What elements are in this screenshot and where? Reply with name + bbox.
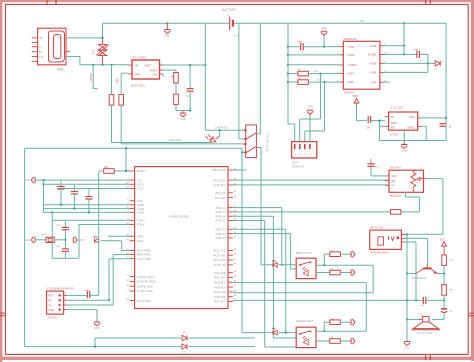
svg-text:MCP73831: MCP73831 [131, 84, 145, 88]
svg-text:SDA: SDA [317, 79, 322, 82]
svg-text:MMBT2222A: MMBT2222A [412, 276, 427, 280]
svg-text:JST-1M: JST-1M [48, 316, 57, 320]
svg-text:GND2: GND2 [137, 203, 145, 207]
svg-text:RED-PONG: RED-PONG [296, 251, 313, 255]
svg-text:BMA250: BMA250 [344, 91, 355, 95]
svg-text:ADC6 (PE2): ADC6 (PE2) [137, 299, 151, 303]
svg-text:TSCK (PB5): TSCK (PB5) [137, 257, 151, 261]
svg-text:(PA1) AD1: (PA1) AD1 [214, 276, 227, 280]
svg-text:GND: GND [404, 346, 410, 350]
svg-text:PS 217-8040: PS 217-8040 [417, 331, 433, 335]
svg-text:STAT: STAT [116, 78, 119, 84]
svg-text:USB.5V: USB.5V [90, 73, 93, 82]
svg-text:RST: RST [48, 294, 54, 298]
svg-text:CS: CS [392, 186, 396, 188]
svg-text:VCC2: VCC2 [137, 187, 144, 191]
svg-text:7.2Ω: 7.2Ω [417, 312, 423, 316]
svg-text:XTAL: XTAL [40, 234, 47, 237]
svg-text:MMA8452Q: MMA8452Q [343, 37, 357, 41]
svg-text:(PB2) 42: (PB2) 42 [216, 232, 227, 236]
svg-text:USB LED: USB LED [168, 138, 182, 142]
svg-text:8-VSS: 8-VSS [370, 73, 377, 75]
svg-text:+: + [227, 13, 229, 17]
svg-text:(PC5) TDI: (PC5) TDI [214, 263, 226, 267]
svg-text:XTAL2: XTAL2 [137, 219, 145, 223]
svg-text:DIGI-POT: DIGI-POT [390, 166, 402, 170]
svg-text:VB: VB [39, 38, 43, 40]
svg-text:4-SCK: 4-SCK [347, 74, 354, 76]
svg-text:AREF: AREF [137, 234, 144, 238]
svg-text:Vbat: Vbat [298, 41, 303, 44]
svg-text:FTDI SERIAL/PWR HD: FTDI SERIAL/PWR HD [47, 286, 74, 290]
svg-text:LP5912: LP5912 [390, 132, 400, 136]
svg-text:GND: GND [94, 326, 100, 330]
svg-text:(PA0) AD0: (PA0) AD0 [214, 271, 227, 275]
svg-text:D-: D- [39, 47, 42, 49]
svg-text:3.3v LDO: 3.3v LDO [391, 106, 404, 110]
svg-text:VDD: VDD [392, 176, 397, 178]
svg-text:(PA7) AD7: (PA7) AD7 [214, 300, 227, 304]
svg-text:(PA4) AD4: (PA4) AD4 [214, 290, 227, 294]
svg-text:(PD4) 12: (PD4) 12 [215, 206, 226, 210]
svg-text:1-VDDIO: 1-VDDIO [347, 65, 357, 67]
svg-text:10-VDD: 10-VDD [368, 55, 377, 57]
svg-text:DISPLAY: DISPLAY [292, 165, 304, 169]
svg-text:VIN: VIN [134, 63, 138, 67]
svg-text:EN: EN [391, 126, 395, 130]
svg-text:SCL: SCL [314, 71, 319, 73]
svg-text:(PC5) SCL: (PC5) SCL [213, 183, 226, 187]
svg-text:7-INT: 7-INT [370, 82, 376, 84]
svg-text:PROG: PROG [150, 68, 158, 72]
svg-text:GND: GND [391, 121, 397, 125]
svg-text:(PD5) 13: (PD5) 13 [215, 210, 226, 214]
svg-text:(PC4) SDA: (PC4) SDA [213, 178, 226, 182]
svg-text:5.1v: 5.1v [92, 49, 95, 54]
svg-text:MCP4021: MCP4021 [390, 194, 402, 198]
svg-text:(PC4) TDO: (PC4) TDO [213, 258, 226, 262]
svg-text:BATTERY: BATTERY [222, 8, 237, 12]
svg-text:VSS: VSS [152, 73, 157, 77]
svg-text:MISO (PB4): MISO (PB4) [137, 253, 151, 257]
svg-text:GND: GND [180, 117, 186, 121]
svg-text:GND: GND [25, 239, 31, 242]
svg-text:VCC: VCC [137, 178, 143, 182]
svg-text:(PD7) 15: (PD7) 15 [215, 219, 226, 223]
svg-text:AVCC: AVCC [137, 239, 144, 243]
svg-text:2v8: 2v8 [360, 19, 365, 23]
svg-text:USB: USB [57, 68, 64, 72]
svg-text:(PB0) LED0: (PB0) LED0 [212, 168, 226, 172]
svg-text:6-SDI: 6-SDI [347, 82, 353, 84]
svg-text:MOSI (PB3): MOSI (PB3) [137, 249, 151, 253]
svg-text:GND: GND [321, 26, 327, 30]
svg-text:GND: GND [164, 34, 170, 38]
svg-text:0.1u: 0.1u [85, 290, 90, 292]
svg-text:Vdd: Vdd [414, 49, 419, 52]
svg-text:VCC: VCC [440, 239, 445, 242]
svg-text:CHARGE: CHARGE [215, 126, 228, 130]
svg-text:LD: LD [442, 61, 445, 63]
svg-text:BOB-MPU6050: BOB-MPU6050 [371, 250, 389, 254]
svg-text:RESET: RESET [137, 169, 146, 173]
svg-text:(PA3) AD3: (PA3) AD3 [214, 285, 227, 289]
svg-text:(PB3) 43: (PB3) 43 [216, 236, 227, 240]
svg-text:10/RXD (PD1): 10/RXD (PD1) [137, 284, 154, 288]
svg-text:GND2: GND2 [407, 126, 415, 130]
svg-text:(PA5) AD5: (PA5) AD5 [214, 295, 227, 299]
svg-text:(PD6) 14: (PD6) 14 [215, 214, 226, 218]
svg-text:(PB1) 41: (PB1) 41 [216, 228, 227, 232]
svg-text:XTAL1: XTAL1 [137, 223, 145, 227]
svg-text:(PC0) RX: (PC0) RX [215, 196, 226, 200]
svg-text:(PA2) AD2: (PA2) AD2 [214, 281, 227, 285]
svg-text:GREEN-SET: GREEN-SET [296, 319, 314, 323]
svg-text:MP-ACCEL: MP-ACCEL [370, 226, 384, 230]
svg-text:VBAT: VBAT [353, 95, 359, 98]
svg-text:OUT: OUT [409, 115, 415, 119]
svg-text:VCC1: VCC1 [137, 183, 144, 187]
svg-text:GND3: GND3 [137, 207, 145, 211]
svg-text:GND: GND [25, 179, 31, 182]
svg-text:3-VSS: 3-VSS [347, 47, 354, 49]
svg-text:TX: TX [48, 303, 52, 307]
svg-text:LIPO-CHRG: LIPO-CHRG [131, 55, 147, 59]
svg-text:IN: IN [391, 115, 394, 119]
svg-text:(PC2) TCK: (PC2) TCK [213, 249, 226, 253]
svg-text:ATMEGA328P: ATMEGA328P [169, 215, 188, 219]
svg-text:9-VSS: 9-VSS [370, 64, 377, 66]
svg-text:GND: GND [48, 308, 54, 312]
svg-text:STAT: STAT [134, 73, 141, 77]
svg-text:INT1/OC (PD3): INT1/OC (PD3) [137, 275, 155, 279]
svg-text:PPST-SWITCH: PPST-SWITCH [265, 133, 269, 151]
svg-text:9-CSB: 9-CSB [369, 46, 376, 48]
svg-text:RX: RX [48, 299, 52, 303]
svg-text:WP: WP [392, 181, 396, 183]
svg-text:V+5: V+5 [39, 57, 44, 59]
svg-text:GND4: GND4 [137, 211, 145, 215]
svg-text:(PC1) TX: (PC1) TX [215, 191, 226, 195]
svg-text:(PC3) TMS: (PC3) TMS [213, 253, 226, 257]
svg-text:11/TXD (PD0): 11/TXD (PD0) [137, 289, 153, 293]
svg-text:VBAT: VBAT [144, 63, 151, 67]
svg-text:GND: GND [401, 149, 407, 153]
svg-text:INT0/TXD (PD2): INT0/TXD (PD2) [137, 280, 156, 284]
svg-text:GND: GND [307, 104, 313, 108]
svg-text:GND: GND [137, 199, 143, 203]
svg-text:5-SDO: 5-SDO [347, 55, 354, 57]
